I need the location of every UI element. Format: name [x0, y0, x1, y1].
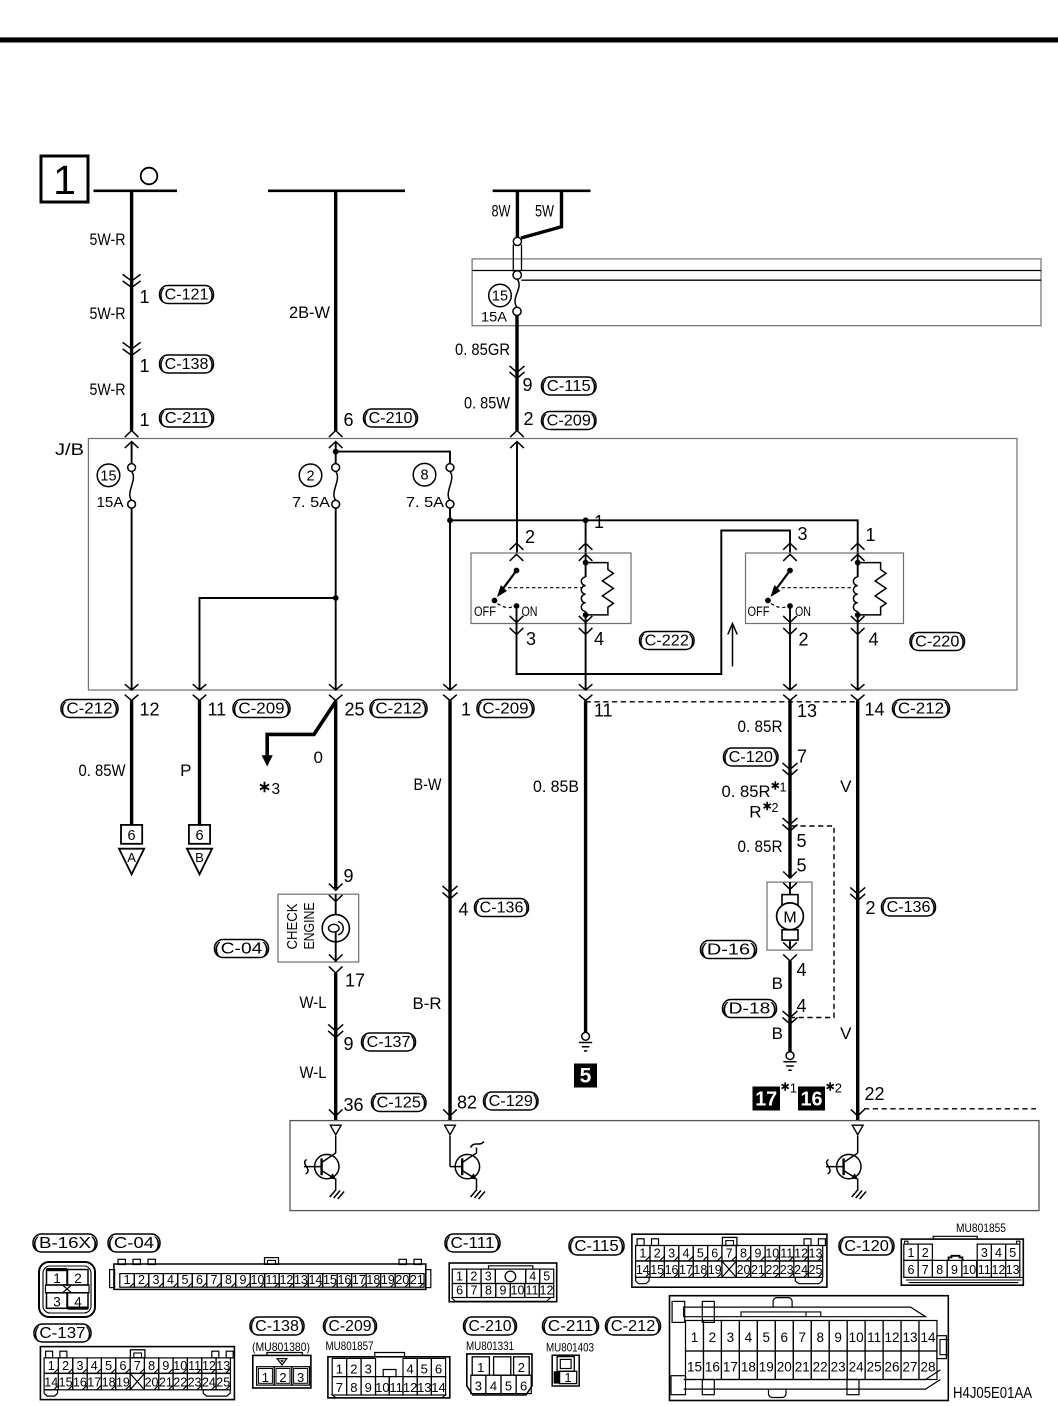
svg-text:14: 14: [865, 700, 885, 720]
svg-text:(C-209): (C-209): [323, 1318, 377, 1335]
wire 2B-W (column 2): [334, 191, 337, 431]
svg-text:6: 6: [196, 1273, 203, 1287]
svg-text:1: 1: [639, 1247, 646, 1261]
ECU pin triangle 82: [445, 1125, 456, 1135]
svg-text:B: B: [195, 850, 204, 865]
svg-text:3: 3: [76, 1359, 83, 1373]
svg-text:V: V: [840, 777, 852, 796]
svg-text:OFF: OFF: [748, 604, 770, 619]
relay C-220 resistor: [858, 563, 886, 615]
svg-text:19: 19: [759, 1360, 774, 1375]
svg-text:9: 9: [754, 1247, 761, 1261]
connector C-129 label: [484, 1092, 539, 1110]
relay C-220 linkage dashed line: [782, 587, 855, 589]
svg-text:7. 5A: 7. 5A: [406, 495, 444, 511]
relay C-222 coil: [581, 577, 585, 611]
relay C-220 coil line: [857, 553, 859, 624]
svg-text:(C-04): (C-04): [214, 941, 269, 958]
svg-text:21: 21: [795, 1360, 810, 1375]
lamp wire bottom: [335, 932, 337, 962]
fuse 15 symbol: [128, 464, 136, 472]
svg-text:15A: 15A: [97, 495, 124, 511]
svg-text:1: 1: [53, 157, 76, 203]
svg-text:20: 20: [777, 1360, 792, 1375]
svg-text:2: 2: [518, 1360, 525, 1375]
wire 0 (pin25 to lamp): [334, 701, 337, 891]
svg-text:(C-115): (C-115): [541, 378, 596, 395]
junction circle 8W/5W: [513, 237, 521, 245]
svg-text:(C-211): (C-211): [159, 410, 214, 427]
fusible link 15 label: [489, 284, 512, 307]
svg-text:16: 16: [801, 1089, 823, 1111]
svg-text:B-R: B-R: [413, 994, 442, 1013]
svg-text:1: 1: [564, 1370, 571, 1385]
svg-text:H4J05E01AA: H4J05E01AA: [953, 1385, 1033, 1402]
wire 8W: [516, 191, 519, 238]
svg-text:6: 6: [711, 1247, 718, 1261]
svg-text:CHECK: CHECK: [285, 903, 301, 949]
svg-text:J/B: J/B: [55, 440, 84, 459]
relay C-222 coil top dot: [583, 560, 589, 566]
relay C-220 pin2 wire to pin 13: [789, 624, 791, 691]
svg-text:1: 1: [780, 781, 787, 795]
connector C-212 label: [606, 1317, 661, 1335]
relay C-220 box: [746, 553, 904, 624]
lamp wire top: [335, 894, 337, 924]
svg-text:(C-136): (C-136): [881, 899, 936, 916]
svg-text:4: 4: [91, 1359, 98, 1373]
svg-text:4: 4: [869, 630, 879, 650]
fusible link hollow wire: [513, 245, 521, 272]
svg-text:6: 6: [344, 410, 354, 430]
svg-text:16: 16: [705, 1360, 720, 1375]
svg-text:OFF: OFF: [474, 604, 496, 619]
svg-text:4: 4: [682, 1247, 689, 1261]
relay C-220 coil top dot: [855, 560, 861, 566]
ECU entry chevron pin36: [329, 1109, 343, 1116]
svg-text:(C-120): (C-120): [723, 749, 778, 766]
svg-text:6: 6: [456, 1283, 463, 1297]
svg-text:(C-129): (C-129): [483, 1093, 538, 1110]
relay C-220 label: [910, 633, 965, 651]
svg-text:15: 15: [492, 289, 508, 305]
svg-text:7: 7: [134, 1359, 141, 1373]
relay C-220 coil bottom dot: [855, 612, 861, 618]
junction dot fuse2 branch: [333, 449, 339, 455]
wire fuse2 to pin25: [335, 508, 337, 690]
svg-text:(C-137): (C-137): [34, 1325, 92, 1342]
svg-text:8: 8: [420, 468, 428, 484]
check engine lamp box: [278, 894, 359, 962]
svg-text:15: 15: [687, 1360, 702, 1375]
connector C-04 label: [108, 1234, 160, 1252]
check engine lamp entry chevrons: [329, 884, 343, 902]
svg-text:11: 11: [867, 1330, 881, 1345]
svg-text:5: 5: [797, 831, 807, 851]
wire 5W-R (column 1): [130, 191, 133, 431]
svg-text:9: 9: [951, 1263, 958, 1277]
J/B exit chevrons pin 12: [125, 684, 139, 700]
connector C-138 label: [160, 355, 214, 373]
svg-text:6: 6: [435, 1361, 442, 1376]
inline connector C-136 chevrons (B-W): [443, 886, 458, 899]
svg-text:24: 24: [849, 1360, 865, 1375]
svg-text:5: 5: [580, 1065, 592, 1088]
inline connector C-115 chevrons: [510, 366, 525, 379]
svg-text:W-L: W-L: [300, 1063, 327, 1082]
relay C-222 throw dashed arc: [498, 604, 514, 608]
connector C-209 drawing: [328, 1357, 450, 1398]
svg-text:2: 2: [62, 1359, 69, 1373]
svg-text:8: 8: [225, 1273, 232, 1287]
wire W-L: [334, 973, 337, 1121]
relay C-220 OFF contact dot: [765, 598, 771, 604]
fusible link bus bar lower line: [521, 279, 1041, 281]
svg-text:8: 8: [816, 1330, 824, 1345]
svg-text:1: 1: [53, 1271, 61, 1286]
svg-text:10: 10: [962, 1263, 976, 1277]
relay C-220 ON contact dot: [787, 603, 793, 609]
svg-text:6: 6: [128, 828, 136, 844]
svg-text:(C-137): (C-137): [361, 1034, 416, 1051]
relay C-222 pin3 chevrons: [510, 616, 524, 635]
connector C-120 drawing: [901, 1239, 1023, 1285]
connector C-136 label (V): [882, 898, 936, 916]
wire to fuse 2 with branch: [335, 442, 337, 464]
svg-text:(C-212): (C-212): [370, 701, 428, 718]
svg-text:5W-R: 5W-R: [90, 380, 126, 399]
connector C-212 drawing: [670, 1296, 949, 1401]
svg-text:2: 2: [525, 527, 535, 547]
svg-text:(C-209): (C-209): [477, 701, 535, 718]
svg-text:2: 2: [709, 1330, 717, 1345]
wire 0.85B: [584, 701, 587, 1033]
svg-text:2: 2: [772, 801, 779, 815]
svg-text:1: 1: [461, 700, 471, 720]
motor D-16 exit chevrons: [783, 942, 797, 961]
svg-text:1: 1: [48, 1359, 55, 1373]
svg-text:11: 11: [594, 701, 613, 721]
svg-text:0. 85GR: 0. 85GR: [455, 340, 510, 359]
branch wire to fuse 8: [336, 452, 450, 464]
connector C-137 label: [34, 1324, 91, 1342]
terminal A (box 6 + triangle): [121, 825, 142, 844]
svg-text:17: 17: [723, 1360, 738, 1375]
wire 0.85W to eyelet A: [130, 701, 133, 825]
svg-text:2: 2: [350, 1361, 357, 1376]
connector C-115 label: [569, 1237, 624, 1255]
ground (body earth): [582, 1032, 590, 1040]
svg-text:2: 2: [138, 1273, 145, 1287]
svg-text:1: 1: [140, 356, 150, 376]
inline chevrons (option split): [783, 818, 798, 831]
svg-text:1: 1: [477, 1360, 484, 1375]
svg-text:(C-120): (C-120): [839, 1238, 895, 1255]
relay C-220 pin2 wire: [789, 606, 791, 624]
svg-text:(C-121): (C-121): [159, 287, 214, 304]
svg-text:(C-209): (C-209): [541, 413, 596, 430]
svg-text:8: 8: [148, 1359, 155, 1373]
svg-text:(C-138): (C-138): [250, 1318, 305, 1335]
svg-text:1: 1: [594, 512, 604, 532]
svg-text:4: 4: [459, 900, 469, 920]
branch wire to pin 11: [200, 598, 336, 690]
svg-text:8: 8: [485, 1283, 492, 1297]
connector C-120 inline label: [724, 748, 779, 766]
svg-text:(C-209): (C-209): [233, 701, 291, 718]
svg-text:3: 3: [981, 1246, 988, 1260]
J/B entry chevrons col 2B-W: [329, 431, 343, 449]
svg-text:(C-212): (C-212): [605, 1318, 661, 1335]
svg-text:(C-136): (C-136): [474, 900, 529, 917]
svg-text:0: 0: [314, 748, 323, 767]
wire 5W: [521, 191, 562, 238]
svg-text:(C-211): (C-211): [542, 1318, 599, 1335]
ground tag 5: [574, 1064, 597, 1088]
svg-text:7: 7: [797, 747, 807, 767]
svg-text:28: 28: [920, 1360, 935, 1375]
svg-text:12: 12: [540, 1283, 554, 1297]
check engine lamp exit chevrons: [329, 954, 343, 973]
relay C-220 pin4 wire to pin 14: [857, 624, 859, 691]
relay C-220 pin2 chevrons: [783, 616, 797, 635]
wire 0.85GR: [515, 316, 518, 431]
svg-text:B-W: B-W: [414, 775, 442, 794]
junction dot fuse8 feed: [447, 517, 453, 523]
svg-text:(D-16): (D-16): [700, 942, 757, 959]
ECU entry chevron pin82: [443, 1109, 457, 1116]
svg-text:17: 17: [755, 1089, 777, 1111]
svg-text:7. 5A: 7. 5A: [292, 495, 330, 511]
svg-text:(C-220): (C-220): [910, 634, 965, 651]
connector C-125 label: [372, 1094, 427, 1112]
svg-text:(C-212): (C-212): [892, 701, 950, 718]
svg-text:7: 7: [726, 1247, 733, 1261]
svg-text:0. 85R: 0. 85R: [738, 837, 783, 856]
svg-text:1: 1: [336, 1361, 343, 1376]
connector D-18 label: [723, 1000, 777, 1018]
svg-text:5: 5: [797, 856, 807, 876]
svg-text:5: 5: [505, 1378, 512, 1393]
motor D-16 entry chevrons: [783, 872, 797, 890]
wire relay C-222 pin3 to relay C-220 pin3: [517, 531, 791, 675]
engine control unit box: [290, 1121, 1039, 1211]
motor brush bottom: [782, 930, 798, 940]
svg-text:5W-R: 5W-R: [90, 230, 126, 249]
svg-text:12: 12: [403, 1380, 417, 1395]
check engine bulb: [322, 915, 349, 942]
connector C-212 label (pin25): [370, 700, 427, 718]
svg-text:3: 3: [485, 1269, 492, 1283]
ground (motor earth): [786, 1052, 794, 1060]
relay C-222 pin4 chevrons: [579, 616, 593, 635]
svg-text:10: 10: [849, 1330, 864, 1345]
svg-text:(C-115): (C-115): [569, 1238, 625, 1255]
connector C-137 inline label: [362, 1033, 416, 1051]
inline connector C-138 chevrons: [123, 342, 141, 355]
svg-text:11: 11: [978, 1263, 991, 1277]
flow direction arrow: [728, 624, 737, 667]
svg-text:ENGINE: ENGINE: [302, 902, 318, 949]
wire P to eyelet B: [198, 701, 201, 825]
svg-text:3: 3: [272, 781, 281, 798]
ground tag 16: [798, 1087, 825, 1111]
fuse 2 symbol: [332, 464, 340, 472]
svg-text:8: 8: [350, 1380, 357, 1395]
svg-text:15A: 15A: [481, 309, 508, 325]
connector C-209 label: [542, 412, 597, 430]
svg-text:1: 1: [866, 525, 876, 545]
ECU pin triangle 36: [330, 1125, 341, 1135]
connector C-121 label: [160, 286, 214, 304]
connector C-212 label (pin14): [893, 700, 950, 718]
svg-text:MU801857: MU801857: [326, 1339, 374, 1353]
svg-text:(C-111): (C-111): [445, 1235, 501, 1252]
svg-text:B: B: [772, 1024, 783, 1043]
connector C-136 label (B-W): [475, 899, 529, 917]
svg-text:(D-18): (D-18): [722, 1001, 777, 1018]
svg-text:4: 4: [167, 1273, 174, 1287]
fusible link 15 fuse element: [515, 279, 519, 307]
transistor Q3 (pin 22): [857, 1136, 859, 1153]
svg-text:(C-138): (C-138): [159, 356, 214, 373]
connector C-115 drawing: [632, 1234, 827, 1287]
relay C-220 switch arm: [777, 571, 790, 589]
svg-text:5: 5: [421, 1361, 428, 1376]
svg-text:2B-W: 2B-W: [289, 303, 330, 322]
svg-text:10: 10: [375, 1380, 389, 1395]
inline connector C-136 chevrons (V): [850, 887, 865, 900]
connector C-210 label: [364, 409, 418, 427]
fusible link box: [472, 259, 1041, 326]
svg-text:4: 4: [745, 1330, 753, 1345]
connector B-16X drawing: [39, 1262, 95, 1317]
svg-text:13: 13: [417, 1380, 431, 1395]
svg-text:3: 3: [668, 1247, 675, 1261]
relay feed wire (fuse 8 to relays): [450, 520, 858, 553]
J/B exit chevrons pin 1: [443, 684, 457, 700]
svg-text:M: M: [783, 909, 796, 926]
connector C-137 drawing: [40, 1347, 234, 1400]
svg-text:2: 2: [922, 1246, 929, 1260]
branch arrow *3: [267, 702, 336, 757]
svg-text:2: 2: [279, 1370, 286, 1385]
svg-text:5: 5: [763, 1330, 771, 1345]
motor wire top: [789, 882, 791, 895]
svg-text:6: 6: [907, 1263, 914, 1277]
svg-text:6: 6: [119, 1359, 126, 1373]
svg-text:11: 11: [208, 700, 227, 720]
svg-text:3: 3: [526, 629, 536, 649]
svg-text:1: 1: [124, 1273, 131, 1287]
connector C-210 drawing: [467, 1354, 532, 1395]
wire B-W: [448, 701, 451, 1121]
option *2 dashed outline: [792, 826, 834, 1018]
connector C-115 label: [542, 377, 597, 395]
J/B exit chevrons pin 13: [783, 684, 797, 700]
svg-text:9: 9: [344, 866, 354, 886]
motor M circle: [777, 903, 804, 930]
svg-text:2: 2: [866, 898, 876, 918]
svg-text:13: 13: [1006, 1263, 1020, 1277]
svg-text:11: 11: [389, 1380, 403, 1395]
relay C-222 OFF contact dot: [492, 598, 498, 604]
svg-text:10: 10: [511, 1283, 525, 1297]
wire fuse8 down to pin1: [449, 508, 451, 690]
svg-text:0. 85B: 0. 85B: [533, 777, 579, 796]
svg-text:P: P: [180, 761, 191, 780]
node 1 (power source tag): [41, 156, 88, 202]
battery bus segment A: [94, 190, 178, 193]
svg-text:1: 1: [691, 1330, 699, 1345]
svg-text:9: 9: [344, 1034, 354, 1054]
connector C-211 label: [160, 409, 214, 427]
connector C-04 drawing: [114, 1264, 426, 1289]
svg-text:8W: 8W: [492, 203, 511, 221]
svg-text:22: 22: [865, 1084, 885, 1104]
svg-text:(C-222): (C-222): [639, 633, 694, 650]
svg-text:0. 85R: 0. 85R: [722, 782, 771, 801]
svg-text:3: 3: [153, 1273, 160, 1287]
svg-text:(C-125): (C-125): [371, 1095, 426, 1112]
fusible link lower terminal circle: [513, 307, 521, 315]
svg-text:4: 4: [594, 629, 604, 649]
svg-text:(B-16X): (B-16X): [33, 1235, 98, 1252]
svg-text:A: A: [127, 850, 136, 865]
svg-text:4: 4: [406, 1361, 413, 1376]
svg-text:0. 85W: 0. 85W: [79, 761, 126, 780]
battery bus segment C: [493, 190, 591, 193]
svg-text:5W: 5W: [535, 203, 554, 221]
svg-text:9: 9: [523, 375, 533, 395]
relay C-220 coil: [853, 577, 857, 611]
top border frame line: [0, 37, 1058, 42]
inline connector D-18 chevrons: [783, 1011, 798, 1024]
fusible link upper terminal circle: [513, 271, 521, 279]
svg-text:5W-R: 5W-R: [90, 304, 126, 323]
relay C-222 pin4 wire to pin 11: [585, 624, 587, 691]
ECU entry chevron pin22: [851, 1109, 865, 1116]
dashed connector line (pin22): [864, 1108, 1036, 1110]
svg-text:1: 1: [907, 1246, 914, 1260]
svg-text:9: 9: [365, 1380, 372, 1395]
svg-text:22: 22: [813, 1360, 828, 1375]
svg-text:18: 18: [741, 1360, 756, 1375]
relay C-222 switch arm: [504, 571, 517, 589]
note *3 label: [260, 782, 269, 793]
relay C-220 pin3 chevrons: [783, 543, 797, 561]
svg-text:R: R: [749, 803, 761, 822]
junction block J/B box: [88, 439, 1017, 691]
svg-text:7: 7: [211, 1273, 218, 1287]
relay C-222 resistor: [586, 563, 614, 615]
J/B exit chevrons pin 14: [851, 684, 865, 700]
relay C-220 pin1 chevrons: [851, 543, 865, 561]
svg-text:5: 5: [182, 1273, 189, 1287]
svg-text:8: 8: [740, 1247, 747, 1261]
fuse 8 circled label: [413, 463, 436, 486]
svg-text:4: 4: [797, 996, 807, 1016]
connector C-210 label: [464, 1317, 517, 1335]
svg-text:36: 36: [344, 1095, 364, 1115]
J/B exit chevrons pin 11R: [579, 684, 593, 700]
fuse 8 symbol: [446, 464, 454, 472]
relay C-222 ON contact dot: [514, 603, 520, 609]
svg-text:1: 1: [140, 410, 150, 430]
svg-text:25: 25: [867, 1360, 882, 1375]
svg-text:2: 2: [524, 409, 534, 429]
svg-text:82: 82: [457, 1093, 477, 1113]
